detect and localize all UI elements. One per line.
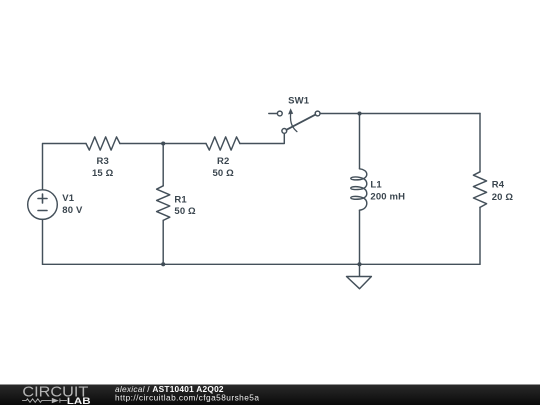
junction node: L1 top	[357, 111, 361, 115]
svg-text:R1: R1	[174, 194, 187, 205]
svg-text:50 Ω: 50 Ω	[212, 168, 234, 179]
wire: R1 bottom lead	[162, 220, 164, 264]
svg-text:50 Ω: 50 Ω	[174, 206, 196, 217]
wire: V1 bottom lead	[42, 219, 44, 264]
wire: R4 bottom lead	[479, 207, 481, 264]
wire: L1 top lead	[359, 114, 361, 169]
switch SW1 arrowhead	[288, 108, 293, 114]
svg-text:R2: R2	[217, 156, 229, 167]
wire: R4 top lead	[479, 114, 481, 172]
svg-text:L1: L1	[370, 179, 382, 190]
junction node: R3/R2/R1	[161, 141, 165, 145]
svg-text:200 mH: 200 mH	[370, 192, 405, 203]
svg-text:80 V: 80 V	[62, 205, 83, 216]
wire: R2 to SW1 common	[240, 133, 284, 143]
switch SW1 left throw stub	[269, 113, 278, 115]
svg-text:SW1: SW1	[288, 96, 310, 107]
junction node: L1 bottom / ground	[357, 262, 361, 266]
logo diode triangle	[52, 398, 59, 403]
svg-text:V1: V1	[62, 193, 74, 204]
voltage source V1	[28, 190, 58, 220]
resistor R1	[157, 186, 170, 221]
logo resistor-diode squiggle	[22, 398, 67, 402]
ground	[347, 264, 372, 288]
svg-text:20 Ω: 20 Ω	[492, 192, 514, 203]
switch SW1 terminals	[277, 111, 282, 116]
resistor R3	[86, 137, 120, 150]
svg-text:R3: R3	[96, 156, 108, 167]
wire: R3 to node A	[120, 143, 163, 145]
svg-text:R4: R4	[492, 179, 505, 190]
footer bar	[0, 385, 540, 405]
wire: L1 bottom lead	[359, 210, 361, 264]
switch SW1 blade	[286, 115, 315, 130]
switch SW1 arrow	[290, 114, 296, 132]
junction node: R1 bottom rail	[161, 262, 165, 266]
wire: node A to R2	[163, 143, 206, 145]
wire: V1 top lead up to top-left corner and right to R3	[43, 144, 87, 190]
inductor L1	[351, 169, 367, 210]
svg-text:15 Ω: 15 Ω	[92, 168, 114, 179]
resistor R4	[473, 172, 486, 208]
svg-text:LAB: LAB	[67, 396, 91, 405]
wire: bottom rail	[43, 263, 481, 265]
wire: R1 vertical top lead	[162, 144, 164, 186]
wire: SW1 output to top-right corner	[320, 113, 480, 115]
resistor R2	[206, 137, 240, 150]
svg-text:http://circuitlab.com/cfga58ur: http://circuitlab.com/cfga58urshe5a	[115, 393, 259, 403]
